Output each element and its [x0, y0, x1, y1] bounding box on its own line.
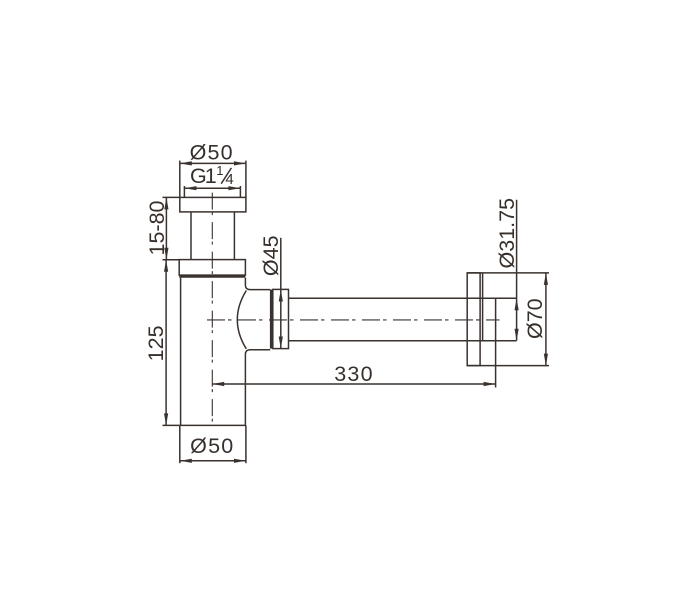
dimension line Ø50 bottom	[180, 459, 246, 463]
outlet shoulder lines with filleted body corners	[245, 278, 270, 426]
dimension Ø31.75 (tube end line)	[515, 200, 519, 341]
body top flange	[179, 260, 245, 276]
svg-text:Ø31.75: Ø31.75	[495, 198, 519, 269]
flange bottom edge with Ø70 extension	[467, 365, 549, 367]
svg-text:Ø70: Ø70	[523, 298, 547, 339]
fraction slash of G 1 1/4	[221, 168, 231, 184]
svg-text:4: 4	[225, 171, 233, 188]
outlet tube lines	[289, 298, 517, 341]
flange top edge with Ø70 extension	[467, 272, 549, 274]
dimension line Ø50 top	[180, 161, 246, 165]
wall plate rectangle	[467, 273, 480, 366]
horizontal centerline	[207, 319, 500, 321]
dimension 15-80	[163, 197, 180, 259]
body curve arc	[237, 291, 246, 349]
top flange rectangle	[180, 197, 246, 212]
inlet cap sides (Ø50 top)	[180, 161, 246, 198]
svg-text:125: 125	[144, 325, 168, 361]
vertical centerline	[211, 193, 213, 422]
dimension Ø70	[544, 273, 548, 366]
trap body outline	[180, 278, 246, 426]
bottom cap sides (Ø50 bottom)	[180, 425, 246, 463]
dimension 125	[163, 260, 180, 426]
svg-text:1: 1	[205, 164, 217, 188]
svg-text:Ø50: Ø50	[190, 140, 234, 164]
dimension Ø45	[279, 238, 283, 349]
wall face line / 330 extension	[495, 298, 497, 387]
svg-text:15-80: 15-80	[145, 200, 169, 255]
svg-text:1: 1	[216, 163, 223, 178]
thick joint line under body flange	[179, 275, 245, 278]
dimension 330	[212, 382, 495, 386]
svg-text:Ø50: Ø50	[190, 434, 234, 458]
outlet nut rectangle (Ø45)	[273, 289, 289, 348]
svg-text:Ø45: Ø45	[259, 235, 283, 276]
washer thick line	[270, 290, 273, 349]
label G 1 1/4	[190, 163, 234, 188]
wall plate inner line	[482, 273, 484, 341]
inlet tube sides	[191, 212, 234, 260]
svg-text:330: 330	[334, 362, 373, 386]
dimension line G 1 1/4	[184, 186, 240, 197]
